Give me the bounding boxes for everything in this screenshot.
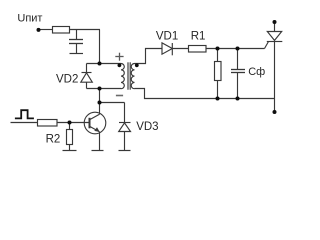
svg-text:R1: R1 [191,31,206,43]
svg-text:VD3: VD3 [136,121,158,133]
svg-text:VD2: VD2 [56,74,78,86]
svg-text:R2: R2 [46,134,61,146]
svg-text:VD1: VD1 [156,31,178,43]
svg-text:Сф: Сф [248,66,265,78]
svg-text:Uпит: Uпит [17,13,42,25]
